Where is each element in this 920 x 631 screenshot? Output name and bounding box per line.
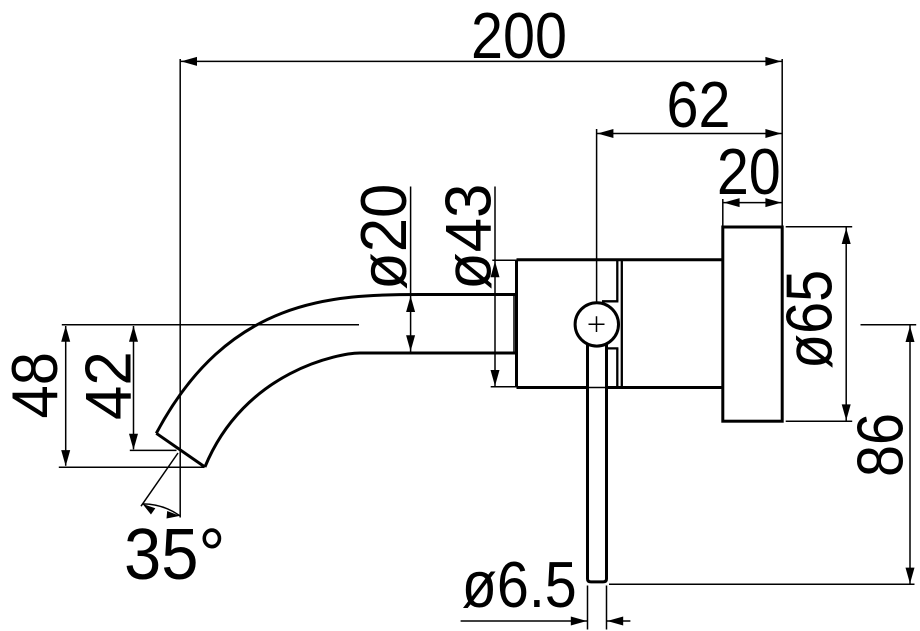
node: outlet axis extension line xyxy=(179,59,181,518)
spout inner curve xyxy=(205,353,517,467)
seam notch caps xyxy=(602,301,618,348)
pivot cross xyxy=(589,316,605,332)
angle 35 xyxy=(124,453,225,595)
dim 200 xyxy=(180,0,782,227)
dim 42 xyxy=(73,326,176,451)
svg-text:86: 86 xyxy=(844,413,917,477)
dim diam20 (spout) xyxy=(349,184,421,352)
svg-text:ø65: ø65 xyxy=(773,270,846,369)
dim 86 (handle) xyxy=(609,325,917,585)
dim diam6.5 (lever) xyxy=(461,549,631,630)
dim diam65 (plate) xyxy=(773,227,852,421)
svg-text:ø6.5: ø6.5 xyxy=(462,549,577,622)
svg-text:20: 20 xyxy=(717,136,781,209)
svg-text:35°: 35° xyxy=(124,514,225,595)
wall plate xyxy=(723,227,782,421)
spout seam line xyxy=(513,296,515,352)
svg-text:ø20: ø20 xyxy=(349,184,421,290)
spout cut edge xyxy=(156,433,205,467)
thin line across lever at body bottom xyxy=(586,387,608,389)
svg-text:62: 62 xyxy=(667,69,731,142)
spout outer curve xyxy=(156,295,516,434)
body outline xyxy=(517,260,723,388)
svg-text:42: 42 xyxy=(73,351,145,420)
body mid seam xyxy=(617,260,622,388)
dim 48 xyxy=(0,326,205,468)
dim diam43 (body) xyxy=(433,184,516,387)
dim 20 (plate depth) xyxy=(717,136,782,227)
svg-text:ø43: ø43 xyxy=(433,184,505,290)
dim 62 xyxy=(597,69,783,303)
centerline xyxy=(62,324,359,326)
svg-text:48: 48 xyxy=(0,352,72,419)
pivot circle xyxy=(575,303,618,346)
handle lever xyxy=(587,330,608,581)
svg-text:200: 200 xyxy=(471,0,567,73)
